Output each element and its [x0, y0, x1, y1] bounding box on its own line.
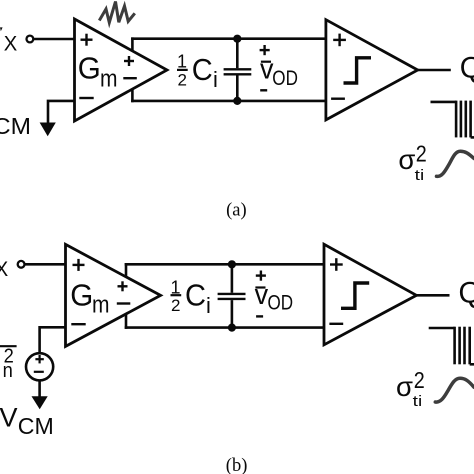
svg-text:G: G: [78, 51, 101, 86]
svg-text:OD: OD: [268, 292, 294, 315]
svg-text:2: 2: [171, 296, 180, 315]
svg-text:V: V: [0, 403, 18, 433]
ground arrow V_CM (a): [40, 123, 56, 137]
capacitor Ci wires (b): [231, 264, 234, 293]
Gm minus input label (b): [71, 323, 85, 325]
Gm minus input label (a): [79, 97, 93, 99]
sine wave (b): [435, 378, 474, 402]
svg-text:2: 2: [177, 70, 186, 89]
capacitor Ci wires (a): [236, 39, 239, 68]
svg-text:OD: OD: [272, 67, 298, 90]
slicer step symbol (b): [341, 283, 369, 308]
label Gm (a): [78, 51, 118, 93]
comparator plus input label (b): [330, 258, 343, 271]
wire minus-input to ground (a): [48, 101, 75, 123]
label v_OD minus (a): [260, 89, 267, 91]
label v_OD minus (b): [256, 315, 263, 317]
ground arrow V_CM (b): [32, 396, 48, 409]
svg-text:i: i: [213, 67, 218, 92]
label v_OD plus (b): [256, 271, 266, 281]
wire output (a): [418, 69, 451, 72]
svg-text:ti: ti: [415, 168, 425, 184]
svg-text:m: m: [100, 65, 118, 92]
svg-text:i: i: [206, 293, 211, 318]
svg-text:2: 2: [416, 141, 427, 167]
label Gm (b): [70, 278, 109, 319]
label V_CM (b): [0, 403, 54, 440]
svg-text:v: v: [255, 279, 269, 311]
svg-text:(a): (a): [226, 200, 247, 220]
jitter pulse symbol (b): [429, 327, 474, 365]
svg-text:σ: σ: [396, 371, 413, 402]
noise source circle (b): [26, 353, 53, 380]
capacitor Ci plates (b): [218, 293, 246, 295]
wire bottom rail (b): [125, 326, 324, 329]
wire input (a): [33, 38, 75, 41]
label 1/2 Ci (b): [170, 277, 210, 317]
wire input (b): [24, 263, 65, 266]
svg-text:X: X: [0, 258, 8, 281]
node top junction (a): [233, 35, 241, 43]
slicer step symbol (a): [344, 58, 372, 83]
svg-text:Q: Q: [459, 276, 474, 309]
capacitor Ci plates (a): [224, 68, 252, 70]
svg-text:1: 1: [177, 52, 187, 72]
label v_OD (a): [260, 54, 298, 90]
label sigma_ti^2 (b): [396, 367, 425, 410]
Gm minus output label (b): [117, 302, 131, 304]
comparator minus input label (a): [331, 97, 345, 99]
noise source minus label (b): [34, 371, 44, 373]
input terminal node (a): [27, 36, 34, 43]
wire output (b): [416, 294, 449, 297]
label V_X (a) : V clipped at left edge, only X visible: [0, 27, 17, 55]
wire box left edge (b): [125, 263, 128, 329]
svg-text:CM: CM: [0, 113, 31, 139]
label sigma_ti^2 (a): [398, 141, 426, 184]
label vn^2 fragment (b) : clipped at left edge: [0, 346, 17, 382]
wire box left edge (a): [131, 37, 134, 102]
input terminal node (b): [18, 261, 25, 268]
label v_OD (b): [255, 279, 294, 315]
op-amp Gm triangle (a): [75, 19, 168, 121]
comparator triangle (b): [324, 244, 416, 344]
Gm plus input label (a): [81, 34, 93, 46]
Gm plus output label (a): [124, 56, 134, 66]
comparator plus input label (a): [333, 34, 346, 47]
wire bottom rail (a): [131, 100, 326, 103]
op-amp Gm triangle (b): [66, 244, 161, 346]
node top junction (b): [228, 260, 236, 268]
node bottom junction (a): [233, 97, 241, 105]
Gm minus output label (a): [123, 77, 137, 79]
svg-text:(b): (b): [226, 456, 248, 474]
node bottom junction (b): [228, 324, 236, 332]
svg-text:X: X: [4, 32, 17, 55]
svg-text:σ: σ: [398, 144, 415, 175]
jitter pulse symbol (a): [431, 101, 474, 138]
svg-text:m: m: [92, 292, 110, 319]
noise source plus label (b): [35, 355, 43, 363]
svg-text:C: C: [185, 277, 206, 312]
svg-text:Q: Q: [460, 51, 474, 84]
svg-text:G: G: [70, 278, 93, 313]
wire minus-input to noise source (b): [40, 327, 66, 353]
wire noise source to arrow (b): [38, 380, 41, 398]
wire top rail (b): [125, 263, 324, 266]
label 1/2 Ci (a): [177, 52, 218, 93]
Gm plus input label (b): [73, 259, 85, 271]
svg-text:CM: CM: [18, 413, 54, 439]
svg-text:n: n: [3, 360, 13, 382]
comparator triangle (a): [326, 20, 418, 120]
svg-text:C: C: [192, 52, 213, 87]
svg-text:ti: ti: [413, 394, 423, 410]
wire top rail (a): [131, 37, 326, 40]
sine wave (a): [437, 151, 474, 176]
label v_OD plus (a): [260, 45, 270, 55]
svg-text:2: 2: [414, 367, 425, 393]
comparator minus input label (b): [329, 323, 343, 325]
noise squiggle on Gm (a): [99, 2, 135, 23]
Gm plus output label (b): [118, 281, 128, 291]
